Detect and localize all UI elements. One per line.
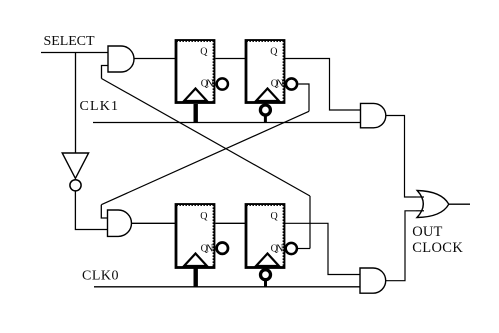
wire OR bottom input stub xyxy=(416,210,424,212)
FF2 clock bubble stub xyxy=(264,117,267,123)
svg-text:QN: QN xyxy=(271,244,284,255)
FF2 clock bubble xyxy=(260,105,270,115)
svg-text:CLK1: CLK1 xyxy=(80,99,119,114)
FF2 dotted inner top edge xyxy=(248,41,284,43)
FF1 clock triangle xyxy=(184,89,207,102)
FF1 QN bubble xyxy=(217,78,228,89)
wire inverter output to U2 xyxy=(75,191,108,230)
wire U5 output to OR bottom input xyxy=(386,211,416,281)
and-gate U2 bottom-left xyxy=(108,210,132,236)
FF3 clock stub xyxy=(193,268,197,287)
svg-text:CLOCK: CLOCK xyxy=(412,240,463,256)
wire SELECT input xyxy=(41,52,108,54)
FF3 clock triangle xyxy=(184,254,207,267)
wire diagonal A vertical drop xyxy=(309,196,311,249)
FF4 QN bubble xyxy=(286,243,297,254)
svg-text:Q: Q xyxy=(200,211,208,222)
FF3 dotted inner right edge xyxy=(212,206,214,266)
inverter U3 bubble xyxy=(70,180,81,191)
flip-flop FF4 box xyxy=(246,205,284,268)
wire CLK1 line xyxy=(93,122,361,124)
svg-text:Q: Q xyxy=(271,211,279,222)
FF4 dotted inner top edge xyxy=(248,205,284,207)
FF4 clock bubble xyxy=(261,270,271,280)
svg-text:Q: Q xyxy=(270,46,278,57)
wire diagonal B drop to U2 input xyxy=(101,205,108,218)
wire FF2 Q out to U4 xyxy=(285,59,361,111)
FF1 dotted inner right edge xyxy=(212,42,214,101)
wire SELECT branch down to inverter xyxy=(75,53,77,154)
wire cross diagonal A from U1 input xyxy=(102,79,311,197)
wire FF2 QN out xyxy=(298,84,309,111)
svg-text:QN: QN xyxy=(271,79,284,90)
svg-text:SELECT: SELECT xyxy=(44,34,95,49)
FF2 QN bubble xyxy=(286,78,297,89)
svg-text:CLK0: CLK0 xyxy=(82,269,119,284)
wire FF1 Q to FF2 D xyxy=(215,58,246,60)
wire U1 lower input elbow xyxy=(102,66,109,79)
wire OR output xyxy=(449,203,470,205)
wire CLK0 line xyxy=(94,286,360,288)
wire cross diagonal B to U2 xyxy=(101,111,309,204)
flip-flop FF3 box xyxy=(176,205,214,268)
and-gate U5 bottom-right xyxy=(360,268,386,293)
and-gate U1 top-left xyxy=(108,46,134,72)
and-gate U4 top-right xyxy=(361,103,386,127)
FF2 clock triangle xyxy=(256,89,279,102)
wire to FF4 QN bubble xyxy=(298,248,310,250)
wire U1 output to FF1 D xyxy=(134,58,176,60)
inverter U3 triangle xyxy=(62,153,88,178)
FF3 dotted inner top edge xyxy=(178,205,214,207)
wire U2 output to FF3 D xyxy=(132,222,177,224)
wire FF3 Q to FF4 D xyxy=(215,222,246,224)
FF1 clock stub xyxy=(193,104,197,123)
FF3 QN bubble xyxy=(217,243,228,254)
svg-text:QN: QN xyxy=(201,244,214,255)
flip-flop FF2 box xyxy=(246,41,284,103)
or-gate U6 xyxy=(417,191,449,218)
FF1 dotted inner top edge xyxy=(178,41,214,43)
svg-text:OUT: OUT xyxy=(412,224,442,240)
FF4 clock bubble stub xyxy=(264,281,267,287)
svg-text:QN: QN xyxy=(201,79,214,90)
FF2 dotted inner right edge xyxy=(282,42,284,101)
FF4 clock triangle xyxy=(256,254,279,267)
flip-flop FF1 box xyxy=(176,41,214,103)
wire U4 output to OR top input xyxy=(386,116,416,198)
wire FF4 Q out to U5 xyxy=(285,223,360,274)
wire OR top input stub xyxy=(416,196,424,198)
FF4 dotted inner right edge xyxy=(282,206,284,266)
svg-text:Q: Q xyxy=(200,46,208,57)
